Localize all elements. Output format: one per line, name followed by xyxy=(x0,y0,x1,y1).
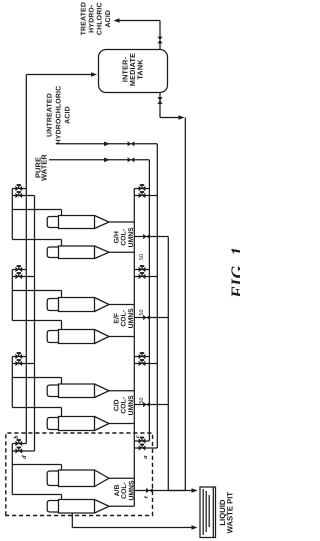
G/H column-2 outlet xyxy=(109,251,134,253)
E/F column-1 feed elbow xyxy=(61,291,63,298)
C/D stub to acid line xyxy=(134,363,157,365)
svg-text:CHLORIC: CHLORIC xyxy=(97,2,104,35)
C/D acid valve xyxy=(139,361,146,366)
C/D column-2 feed drop xyxy=(12,407,61,409)
svg-text:WATER: WATER xyxy=(39,154,48,181)
E/F outlet valve xyxy=(143,315,150,320)
E/F upper header valve xyxy=(15,267,22,272)
drain drop wire xyxy=(72,527,191,529)
svg-text:b: b xyxy=(13,435,20,439)
arrow on untreated acid line xyxy=(104,142,110,147)
C/D outlet valve xyxy=(143,402,150,407)
G/H outlet valve xyxy=(143,234,150,239)
treated acid outlet pipe xyxy=(159,21,161,50)
waste drop wire xyxy=(160,117,179,119)
svg-text:G/H: G/H xyxy=(113,231,120,243)
C/D stub to upper header xyxy=(12,356,26,358)
C/D column vessel 1 xyxy=(59,384,95,398)
arrow to treated acid xyxy=(114,18,120,23)
svg-text:HYDROCHLORIC: HYDROCHLORIC xyxy=(55,86,62,145)
G/H column-2 feed drop xyxy=(12,239,61,241)
A/B feed header pipe xyxy=(11,444,13,495)
E/F acid valve xyxy=(139,274,146,279)
pit liquid line xyxy=(202,489,204,535)
E/F stub to upper header xyxy=(12,269,26,271)
pure water valve xyxy=(128,157,135,162)
column drain line xyxy=(71,513,73,528)
treated acid valve xyxy=(157,37,162,44)
G/H stub to acid line xyxy=(134,195,157,197)
G/H stub to pure-water line xyxy=(134,188,149,190)
svg-text:TREATED: TREATED xyxy=(80,2,87,35)
E/F column-2 feed elbow xyxy=(61,321,63,330)
tank waste outlet pipe xyxy=(159,93,161,118)
E/F column vessel 1 xyxy=(59,298,95,312)
pit drop line xyxy=(168,490,185,492)
waste line to pit drop xyxy=(184,118,186,491)
E/F lower header valve xyxy=(15,274,22,279)
svg-text:E/F: E/F xyxy=(113,313,120,324)
lower header pipe xyxy=(34,196,36,452)
G/H feed header pipe xyxy=(11,189,13,240)
C/D pure-water valve xyxy=(139,354,146,359)
E/F column-2 outlet xyxy=(109,336,134,338)
G/H column-2 feed elbow xyxy=(61,240,63,247)
G/H outlet drop to collection line xyxy=(134,236,168,238)
arrow into waste pit 2 xyxy=(192,525,198,530)
svg-text:TANK: TANK xyxy=(136,59,145,80)
svg-text:COL-: COL- xyxy=(120,397,127,414)
svg-text:ACID: ACID xyxy=(105,10,112,28)
svg-text:c: c xyxy=(134,435,141,438)
svg-text:COL-: COL- xyxy=(120,229,127,246)
C/D outlet drop to collection line xyxy=(134,404,168,406)
A/B stub to lower header xyxy=(12,450,34,452)
G/H column-1 feed elbow xyxy=(61,210,63,216)
C/D upper header valve xyxy=(15,354,22,359)
G/H lower header valve xyxy=(15,193,22,198)
pure water feed line xyxy=(148,160,150,441)
G/H column-1 feed drop xyxy=(12,209,61,211)
untreated acid feed line xyxy=(156,144,158,448)
C/D column-2 outlet xyxy=(109,423,134,425)
G/H pure-water valve xyxy=(139,186,146,191)
C/D column-1 feed elbow xyxy=(61,378,63,385)
C/D stub to pure-water line xyxy=(134,356,149,358)
E/F stub to pure-water line xyxy=(134,269,149,271)
svg-text:d: d xyxy=(21,455,28,459)
svg-text:WASTE PIT: WASTE PIT xyxy=(225,492,234,534)
svg-text:HYDRO-: HYDRO- xyxy=(89,4,96,33)
A/B column vessel 2 xyxy=(59,500,95,514)
intermediate tank xyxy=(99,50,168,93)
C/D column vessel 2 xyxy=(59,417,95,431)
G/H upper header valve xyxy=(15,186,22,191)
tank waste valve xyxy=(157,97,162,104)
untreated acid drop wire xyxy=(56,143,157,145)
svg-text:FIG. 1: FIG. 1 xyxy=(227,246,240,299)
pure water drop wire xyxy=(49,159,149,161)
svg-text:a: a xyxy=(142,455,149,459)
A/B pure-water valve xyxy=(139,438,146,443)
A/B lower header valve xyxy=(15,448,22,453)
svg-text:COL-: COL- xyxy=(120,310,127,327)
A/B outlet drop to waste pit xyxy=(134,490,196,492)
E/F pure-water valve xyxy=(139,267,146,272)
A/B outlet valve e xyxy=(146,488,153,493)
svg-text:50: 50 xyxy=(139,309,145,315)
A/B acid valve xyxy=(139,445,146,450)
G/H column-1 outlet xyxy=(109,221,134,223)
A/B column vessel 1 xyxy=(59,470,95,487)
E/F stub to acid line xyxy=(134,276,157,278)
A/B column-2 feed elbow xyxy=(61,495,63,500)
E/F stub to lower header xyxy=(12,276,34,278)
A/B column-1 feed elbow xyxy=(61,465,63,471)
A/B stub to upper header xyxy=(12,443,26,445)
A/B column-2 feed drop xyxy=(12,494,61,496)
G/H stub to lower header xyxy=(12,195,34,197)
G/H column vessel 1 xyxy=(59,216,95,229)
A/B upper header valve xyxy=(15,441,22,446)
pit liquid line xyxy=(205,491,207,532)
arrow into waste line xyxy=(179,115,185,120)
C/D stub to lower header xyxy=(12,363,34,365)
svg-text:ACID: ACID xyxy=(65,106,72,124)
pit liquid line xyxy=(208,495,210,527)
treated acid riser wire xyxy=(119,20,160,22)
dashed boundary box around A/B group xyxy=(6,433,153,516)
wire drop into tank xyxy=(26,74,91,76)
G/H acid valve xyxy=(139,193,146,198)
G/H stub to upper header xyxy=(12,188,26,190)
svg-text:COL-: COL- xyxy=(121,482,128,499)
svg-text:e: e xyxy=(143,495,150,498)
collection line to pit drop xyxy=(167,237,169,491)
A/B stub to pure-water line xyxy=(134,440,149,442)
C/D column-1 feed drop xyxy=(12,377,61,379)
untreated acid valve xyxy=(128,141,135,146)
E/F column-1 feed drop xyxy=(12,290,61,292)
A/B column-1 feed drop xyxy=(12,464,61,466)
A/B column-1 outlet xyxy=(109,477,134,479)
arrow into tank top xyxy=(91,72,97,77)
svg-text:UNTREATED: UNTREATED xyxy=(46,93,53,137)
E/F column vessel 2 xyxy=(59,330,95,344)
svg-text:50: 50 xyxy=(139,397,145,403)
G/H column vessel 2 xyxy=(59,246,95,259)
A/B column-2 outlet xyxy=(109,505,134,507)
C/D feed header pipe xyxy=(11,357,13,408)
bottom collection manifold xyxy=(133,189,135,507)
C/D lower header valve xyxy=(15,361,22,366)
svg-text:50: 50 xyxy=(139,254,145,260)
E/F outlet drop to collection line xyxy=(134,317,168,319)
svg-text:A/B: A/B xyxy=(114,485,121,497)
E/F column-2 feed drop xyxy=(12,320,61,322)
liquid waste pit xyxy=(200,487,216,538)
E/F column-1 outlet xyxy=(109,304,134,306)
A/B stub to acid line xyxy=(134,447,157,449)
C/D column-1 outlet xyxy=(109,390,134,392)
arrow into waste pit xyxy=(192,488,198,493)
arrow on pure water line xyxy=(104,158,110,163)
pit bottom double line xyxy=(212,487,214,538)
upper header pipe to intermediate tank xyxy=(25,75,27,444)
E/F feed header pipe xyxy=(11,270,13,321)
C/D column-2 feed elbow xyxy=(61,408,63,417)
svg-text:C/D: C/D xyxy=(113,399,120,411)
